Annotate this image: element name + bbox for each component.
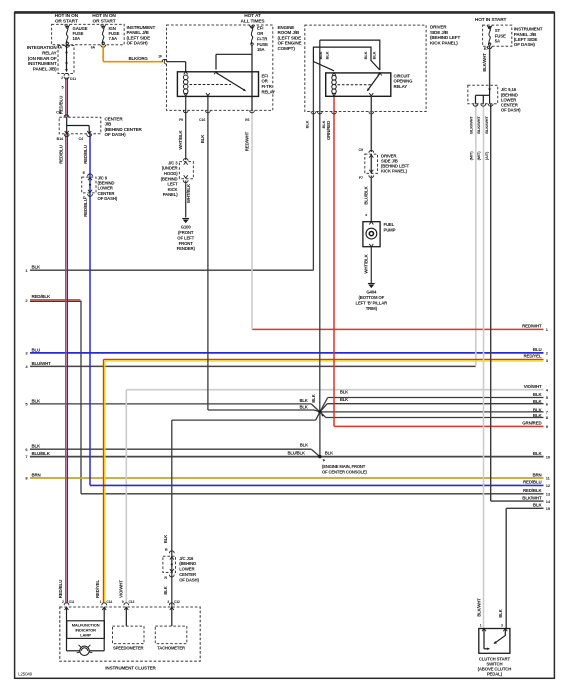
svg-text:PUMP: PUMP [384,227,396,232]
svg-text:BLK/WHT: BLK/WHT [484,116,489,134]
svg-text:(BEHIND LEFT: (BEHIND LEFT [430,35,460,40]
svg-text:DRIVER: DRIVER [430,25,447,30]
svg-text:BLK/WHT: BLK/WHT [477,598,482,617]
svg-text:RED/BLU: RED/BLU [523,480,541,485]
svg-text:RELAY: RELAY [262,89,276,94]
svg-text:J/C 3: J/C 3 [168,160,178,165]
svg-text:SPEEDOMETER: SPEEDOMETER [113,646,144,651]
svg-text:RED/BLU: RED/BLU [83,145,88,163]
svg-text:BLK/ORG: BLK/ORG [129,56,149,61]
svg-text:INTEGRATION: INTEGRATION [27,45,57,50]
svg-text:1: 1 [480,624,482,628]
svg-text:F9: F9 [179,118,183,122]
svg-text:OR: OR [257,31,264,36]
svg-text:HOT IN START: HOT IN START [475,17,507,23]
svg-text:RED/BLK: RED/BLK [32,294,51,299]
svg-text:*: * [365,214,367,220]
svg-text:HOT IN ON: HOT IN ON [92,13,116,19]
svg-text:(BEHIND: (BEHIND [161,176,178,181]
svg-text:BLK: BLK [311,394,316,402]
svg-text:RED/BLU: RED/BLU [83,198,88,216]
svg-text:F7: F7 [359,176,363,180]
svg-text:D11: D11 [70,77,76,81]
svg-text:FRONT: FRONT [179,241,194,246]
svg-text:C14: C14 [106,600,112,604]
svg-text:BLU: BLU [32,347,41,352]
svg-text:HOOD): HOOD) [164,171,178,176]
svg-text:OF DASH): OF DASH) [501,108,521,113]
svg-text:2: 2 [62,600,64,604]
svg-text:R: R [164,576,167,580]
svg-text:FUEL: FUEL [384,222,395,227]
svg-text:G100: G100 [181,225,192,230]
svg-text:OF LEFT: OF LEFT [177,235,194,240]
svg-text:BLK/WHT: BLK/WHT [522,495,542,500]
svg-text:2: 2 [61,76,63,80]
svg-text:ALL TIMES: ALL TIMES [241,18,266,24]
svg-text:C11: C11 [69,600,75,604]
svg-text:LAMP: LAMP [80,632,91,637]
svg-text:LEFT ’B’ PILLAR: LEFT ’B’ PILLAR [355,300,388,305]
svg-text:(FRONT: (FRONT [178,230,194,235]
svg-text:FI-TR: FI-TR [262,84,273,89]
svg-text:TRIM): TRIM) [366,306,378,311]
svg-text:(ON REAR OF: (ON REAR OF [28,56,57,61]
svg-text:EFI: EFI [257,26,263,31]
svg-text:RED/WHT: RED/WHT [245,131,250,151]
svg-text:OF DASH): OF DASH) [127,41,149,46]
svg-text:OR START: OR START [93,19,116,25]
svg-text:BLK: BLK [533,392,543,397]
svg-text:(A/T): (A/T) [484,151,489,160]
svg-text:FI-TR: FI-TR [257,36,268,41]
svg-text:WHT/BLK: WHT/BLK [363,253,368,273]
svg-text:INSTRUMENT: INSTRUMENT [28,61,57,66]
svg-text:1: 1 [100,600,102,604]
svg-text:(M/T): (M/T) [476,151,481,161]
svg-text:C12: C12 [174,600,180,604]
svg-text:5: 5 [62,86,64,90]
svg-text:GRN/RED: GRN/RED [326,121,331,140]
svg-text:LEFT: LEFT [167,182,178,187]
svg-text:(ENGINE MAIN, FRONT: (ENGINE MAIN, FRONT [322,464,366,469]
svg-text:RED/YEL: RED/YEL [95,580,100,598]
svg-text:3: 3 [501,624,503,628]
svg-text:KICK: KICK [168,187,179,192]
svg-text:BLK: BLK [533,503,543,508]
svg-text:RED/YEL: RED/YEL [524,354,542,359]
svg-text:R: R [165,548,168,552]
svg-text:WHT/BLK: WHT/BLK [186,183,191,203]
svg-text:GRN/RED: GRN/RED [522,421,541,426]
svg-text:BLK: BLK [300,405,308,410]
svg-text:VIO/WHT: VIO/WHT [118,580,123,598]
svg-text:3: 3 [167,600,169,604]
svg-text:BLK: BLK [498,609,503,617]
svg-text:BLK: BLK [533,413,543,418]
svg-text:OR START: OR START [55,19,78,25]
svg-text:C16: C16 [199,118,205,122]
svg-text:BLU: BLU [533,347,542,352]
svg-text:BLK: BLK [325,450,333,455]
svg-text:BLK/WHT: BLK/WHT [482,53,487,72]
svg-text:BLK: BLK [340,390,348,395]
svg-text:OR: OR [262,79,269,84]
svg-text:BLK: BLK [32,444,42,449]
svg-text:J/C J16: J/C J16 [179,556,194,561]
svg-text:PANEL): PANEL) [163,192,178,197]
svg-text:BLK: BLK [533,407,543,412]
svg-text:BLK: BLK [300,398,308,403]
svg-text:E7: E7 [484,47,488,51]
svg-text:INSTRUMENT CLUSTER: INSTRUMENT CLUSTER [105,666,156,671]
svg-text:(BEHIND: (BEHIND [179,561,196,566]
svg-text:BLK: BLK [533,399,543,404]
svg-text:RED/BLU: RED/BLU [59,145,64,163]
svg-text:7.5A: 7.5A [109,36,118,41]
svg-text:BLK: BLK [32,265,42,270]
svg-text:BLK/WHT: BLK/WHT [476,116,481,134]
svg-text:OF CENTER CONSOLE): OF CENTER CONSOLE) [322,469,368,474]
svg-text:OF DASH): OF DASH) [179,577,199,582]
svg-text:OF DASH): OF DASH) [514,42,536,47]
svg-text:CIRCUIT: CIRCUIT [394,73,411,78]
svg-text:FENDER): FENDER) [177,246,196,251]
svg-text:OF DASH): OF DASH) [98,196,118,201]
svg-text:BRN: BRN [532,472,541,477]
svg-text:BLK: BLK [533,451,543,456]
svg-text:5A: 5A [495,39,500,44]
svg-text:BLK: BLK [318,51,323,59]
svg-text:RED/BLU: RED/BLU [58,580,63,598]
svg-text:C9: C9 [358,148,363,152]
svg-text:G404: G404 [366,290,377,295]
svg-text:VIO/WHT: VIO/WHT [524,384,542,389]
svg-text:FUSE: FUSE [257,42,268,47]
svg-text:RELAY: RELAY [42,51,56,56]
svg-text:6A: 6A [91,46,96,50]
svg-text:TACHOMETER: TACHOMETER [157,646,185,651]
svg-text:BLK: BLK [200,134,205,144]
svg-text:BLK: BLK [325,51,330,59]
svg-text:RED/WHT: RED/WHT [522,324,542,329]
svg-text:OF DASH): OF DASH) [105,132,127,137]
svg-text:BLK: BLK [163,535,168,543]
svg-text:KICK PANEL): KICK PANEL) [381,169,407,174]
svg-text:RED/BLK: RED/BLK [523,488,542,493]
svg-text:EFI: EFI [262,73,268,78]
svg-text:BLU/BLK: BLU/BLK [363,185,368,204]
svg-text:BLK: BLK [32,398,42,403]
svg-text:(BOTTOM OF: (BOTTOM OF [358,295,384,300]
svg-text:15A: 15A [257,47,264,52]
svg-text:OPENING: OPENING [394,79,414,84]
svg-text:10A: 10A [73,36,80,41]
svg-text:BLK: BLK [305,120,310,128]
svg-text:BRN: BRN [32,472,41,477]
svg-text:E6: E6 [245,118,249,122]
svg-text:(M/T): (M/T) [468,151,473,161]
svg-text:BLK: BLK [372,51,377,59]
svg-text:BLU/BLK: BLU/BLK [288,450,305,455]
svg-text:LOWER: LOWER [179,567,195,572]
svg-text:BLK/WHT: BLK/WHT [468,116,473,134]
svg-text:RELAY: RELAY [394,84,408,89]
svg-text:SIDE J/B: SIDE J/B [430,30,449,35]
svg-text:WHT/BLK: WHT/BLK [178,129,183,149]
svg-text:BLK: BLK [163,586,168,594]
svg-text:COMPT): COMPT) [278,46,296,51]
svg-text:BLK: BLK [300,443,308,448]
svg-text:L25049: L25049 [18,672,32,677]
svg-text:KICK PANEL): KICK PANEL) [430,41,458,46]
svg-text:(UNDER: (UNDER [162,166,179,171]
svg-text:HOT IN ON: HOT IN ON [55,13,79,19]
svg-text:BLK: BLK [363,51,368,59]
svg-text:BLU/WHT: BLU/WHT [32,361,52,366]
svg-text:B14: B14 [56,137,64,141]
svg-text:BLU/BLK: BLU/BLK [32,451,51,456]
svg-text:PEDAL): PEDAL) [487,672,503,677]
svg-text:9: 9 [122,600,124,604]
svg-text:PANEL J/B): PANEL J/B) [33,66,57,71]
svg-text:CENTER: CENTER [179,572,197,577]
svg-text:BLK: BLK [340,397,348,402]
svg-text:C13: C13 [129,600,135,604]
svg-text:HOT AT: HOT AT [244,13,261,19]
